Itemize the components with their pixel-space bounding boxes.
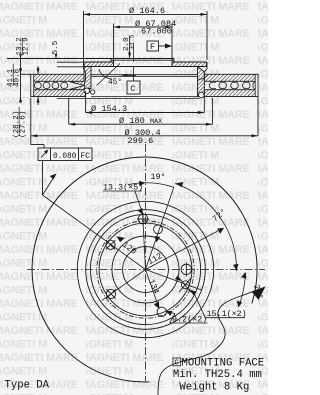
center boss top lines (seen through bore) — [111, 59, 174, 67]
small arrow on window line — [121, 74, 128, 77]
hat right wall hatch — [198, 67, 205, 97]
svg-text:19°: 19° — [151, 172, 166, 182]
vertical centerline — [145, 144, 147, 381]
arrows top dims — [84, 13, 208, 29]
left friction ring bottom hatch band — [31, 90, 86, 97]
hat right flange edge + chamfer — [204, 62, 207, 74]
svg-text:12.9: 12.9 — [23, 37, 31, 56]
datum F box — [147, 41, 159, 51]
right friction ring bottom hatch band — [204, 90, 258, 97]
dim arrows on radials — [117, 228, 225, 309]
9.2 hole diameter arrows — [175, 275, 181, 281]
bolt hole bottom — [157, 307, 166, 316]
hat flange underside line — [84, 66, 208, 68]
svg-text:Ø 164.6: Ø 164.6 — [129, 6, 165, 16]
leader F to bore edge — [159, 45, 169, 47]
svg-text:Min. TH25.4 mm: Min. TH25.4 mm — [173, 369, 262, 381]
2.0 dim (vertical) — [129, 37, 131, 58]
bold direction arrow — [252, 287, 266, 300]
bottom-right text block — [173, 358, 181, 366]
radial lines to holes — [43, 187, 223, 307]
runout symbol — [41, 151, 47, 158]
left dims cluster — [7, 57, 111, 106]
dim line dia 67.084 — [114, 26, 173, 28]
break line + bold arrow flourish — [158, 290, 257, 395]
svg-text:FC: FC — [81, 153, 91, 161]
svg-text:MOUNTING FACE: MOUNTING FACE — [182, 357, 265, 369]
radial 19deg line through upper right bolt hole — [146, 187, 174, 269]
arrow 19d line near hole — [155, 236, 161, 243]
FCF leader — [43, 161, 54, 196]
flange plane lines extended left — [57, 62, 84, 67]
vent capsules right — [209, 82, 257, 88]
28.2 dim line upper — [37, 66, 39, 74]
extension of hat top plane — [7, 58, 111, 60]
svg-text:45°: 45° — [108, 78, 122, 87]
outer rim white strip left — [31, 74, 34, 96]
dim line dia154.3 — [86, 112, 205, 114]
arrow 112 outward — [217, 228, 224, 234]
9.2 hole — [182, 281, 190, 289]
outer circle (clipped at text notch) — [32, 157, 257, 382]
right wall foot bulb — [199, 92, 205, 98]
dim line dia300.4 — [31, 135, 258, 137]
left wall foot bulbs — [84, 88, 90, 94]
hat flange top hatch right — [172, 62, 207, 67]
horizontal centerline — [27, 269, 265, 271]
left friction ring top hatch band — [31, 74, 86, 81]
vent channel closing wedge left — [70, 82, 85, 89]
28.2 dim line lower — [37, 97, 39, 106]
arrow dia120 at bolt circle — [117, 236, 125, 242]
circle mount face edge — [99, 223, 192, 316]
circle hat outer — [86, 210, 206, 330]
svg-text:67.000: 67.000 — [141, 26, 172, 36]
svg-text:+1.5: +1.5 — [129, 34, 136, 49]
svg-text:Weight 8 Kg: Weight 8 Kg — [179, 381, 249, 393]
svg-text:5.5: 5.5 — [52, 40, 60, 54]
extension ring top to dim — [21, 73, 32, 75]
dim line dia 164.6 — [84, 13, 208, 15]
bolt hole upper right — [106, 213, 192, 317]
bolt hole right on centerline — [181, 264, 191, 274]
circle hat face — [90, 214, 200, 324]
circle dia180 — [77, 201, 213, 337]
svg-text:C: C — [174, 360, 179, 368]
bolt hole upper left — [106, 240, 115, 249]
extension line left dia164.6 — [83, 11, 85, 62]
radial 112 line — [146, 229, 223, 270]
15.1 hole top — [138, 214, 148, 224]
boss circle — [112, 236, 179, 303]
svg-text:Ø 180 MAX: Ø 180 MAX — [119, 116, 162, 126]
radial dia120 through upper-left bolt hole to FCF bend — [43, 195, 146, 270]
bore circle — [123, 247, 169, 293]
bolt hole centerline in flange — [133, 44, 135, 62]
datum C box and leader — [127, 81, 140, 94]
radial 134 line to bottom bolt hole — [146, 270, 159, 308]
hat left wall hatch — [84, 67, 91, 89]
right friction ring top hatch band — [204, 74, 258, 81]
svg-text:40.8: 40.8 — [14, 68, 22, 87]
svg-text:F: F — [150, 43, 155, 52]
svg-text:Type DA: Type DA — [5, 380, 50, 392]
19 deg arc — [128, 183, 174, 187]
72 deg arc — [175, 184, 236, 272]
svg-text:(27.6): (27.6) — [20, 111, 28, 138]
dim line 5.5 vertical — [55, 57, 57, 59]
radial to 9.2 hole — [146, 270, 202, 291]
outer rim white strip right — [255, 74, 258, 96]
21 deg arc — [239, 273, 246, 307]
vent wedge hatch triangles — [70, 81, 85, 85]
dim line 13.2/41.1 vertical — [20, 57, 22, 103]
through-window lines (ring surfaces seen through hat window) — [57, 75, 200, 99]
hat left flange edge + chamfer — [84, 62, 86, 81]
radial to lower-left bolt hole — [102, 270, 146, 301]
arrow 134 into hole — [154, 301, 159, 308]
extension line right dia164.6 — [206, 11, 208, 60]
hat flange top hatch left — [84, 62, 114, 67]
svg-text:Ø 154.3: Ø 154.3 — [91, 104, 127, 114]
bolt circle dash-dot — [97, 221, 194, 318]
extension line right dia67 — [171, 24, 173, 59]
bolt hole lower left — [106, 289, 115, 298]
radial to 15.1 hole top — [143, 214, 146, 270]
vent capsules left — [34, 82, 84, 89]
dim line dia180max — [69, 123, 213, 125]
svg-text:0.080: 0.080 — [53, 153, 77, 161]
svg-text:C: C — [130, 84, 135, 94]
svg-text:299.6: 299.6 — [128, 136, 154, 146]
FCF elbow to extension line — [31, 144, 44, 146]
extension line left dia67 — [113, 24, 115, 59]
